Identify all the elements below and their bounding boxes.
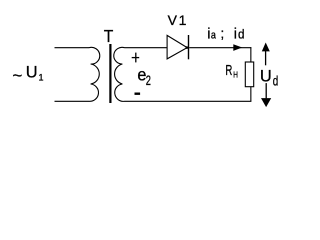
- svg-text:R: R: [225, 62, 232, 79]
- svg-text:~: ~: [12, 66, 22, 85]
- svg-text:1: 1: [179, 12, 187, 28]
- label Ud: [260, 66, 278, 89]
- svg-text:;: ;: [220, 25, 224, 41]
- label ia ; id: [207, 25, 244, 43]
- svg-text:a: a: [211, 30, 216, 42]
- diode V1: [167, 35, 188, 59]
- wire top primary lead: [55, 47, 90, 49]
- wire resistor bottom: [250, 87, 252, 102]
- label e2 (secondary emf): [137, 65, 151, 88]
- voltage arrow Ud upper (arrow up): [262, 43, 270, 66]
- svg-text:T: T: [104, 26, 114, 46]
- svg-text:i: i: [207, 27, 210, 43]
- node label ~U1 (AC source voltage): [12, 63, 43, 84]
- voltage arrow Ud lower (arrow down): [261, 83, 271, 107]
- resistor RH: [245, 62, 253, 87]
- transformer core: [109, 44, 111, 103]
- transformer T primary winding: [89, 47, 100, 101]
- wire corner down to resistor: [250, 47, 252, 62]
- wire secondary top to diode: [125, 47, 167, 49]
- svg-text:1: 1: [39, 72, 44, 82]
- wire diode to corner: [189, 47, 251, 49]
- transformer T secondary winding: [114, 47, 125, 101]
- label - (secondary polarity): [135, 93, 141, 95]
- svg-text:d: d: [273, 73, 278, 89]
- svg-text:U: U: [260, 66, 272, 85]
- svg-text:H: H: [233, 70, 238, 80]
- label V1: [168, 12, 187, 28]
- wire bottom primary lead: [55, 100, 90, 102]
- svg-text:d: d: [238, 27, 244, 42]
- svg-text:2: 2: [146, 73, 151, 88]
- svg-text:U: U: [26, 63, 38, 81]
- svg-text:i: i: [234, 27, 237, 43]
- label RH: [225, 62, 238, 80]
- svg-text:V: V: [168, 12, 178, 28]
- wire bottom return: [125, 100, 252, 102]
- svg-text:e: e: [137, 65, 146, 84]
- current arrow ia/id: [233, 44, 242, 51]
- label + (secondary polarity): [132, 53, 140, 63]
